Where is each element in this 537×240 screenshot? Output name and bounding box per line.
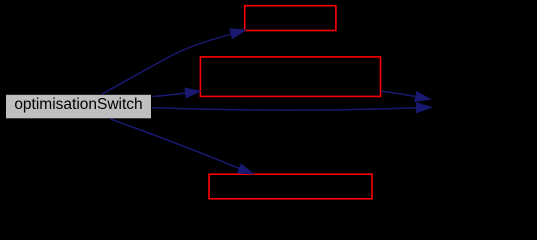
arrowhead E1 [230, 29, 246, 39]
arrowhead E2 [185, 88, 201, 98]
arrowhead E5 [238, 164, 254, 174]
node top (red box, label black-on-black invisible) [245, 6, 336, 31]
node optimisationSwitch (current node, grey) [6, 95, 151, 119]
node optimisationSwitch label text [6, 95, 151, 119]
node bottom (red box, label black-on-black invisible) [209, 174, 372, 199]
node middle (red box, label black-on-black invisible) [200, 57, 380, 97]
arrowhead E3 [416, 103, 431, 113]
wire edge E4: middle box -> right node (invisible) [381, 91, 416, 96]
wire edge E2: optimisationSwitch -> middle box [152, 93, 185, 97]
wire edge E1: optimisationSwitch -> top box [102, 34, 231, 94]
wire edge E3: optimisationSwitch -> right node (invisible) [152, 108, 416, 110]
wire edge E5: optimisationSwitch -> bottom box [111, 119, 240, 168]
arrowhead E4 [415, 92, 431, 102]
